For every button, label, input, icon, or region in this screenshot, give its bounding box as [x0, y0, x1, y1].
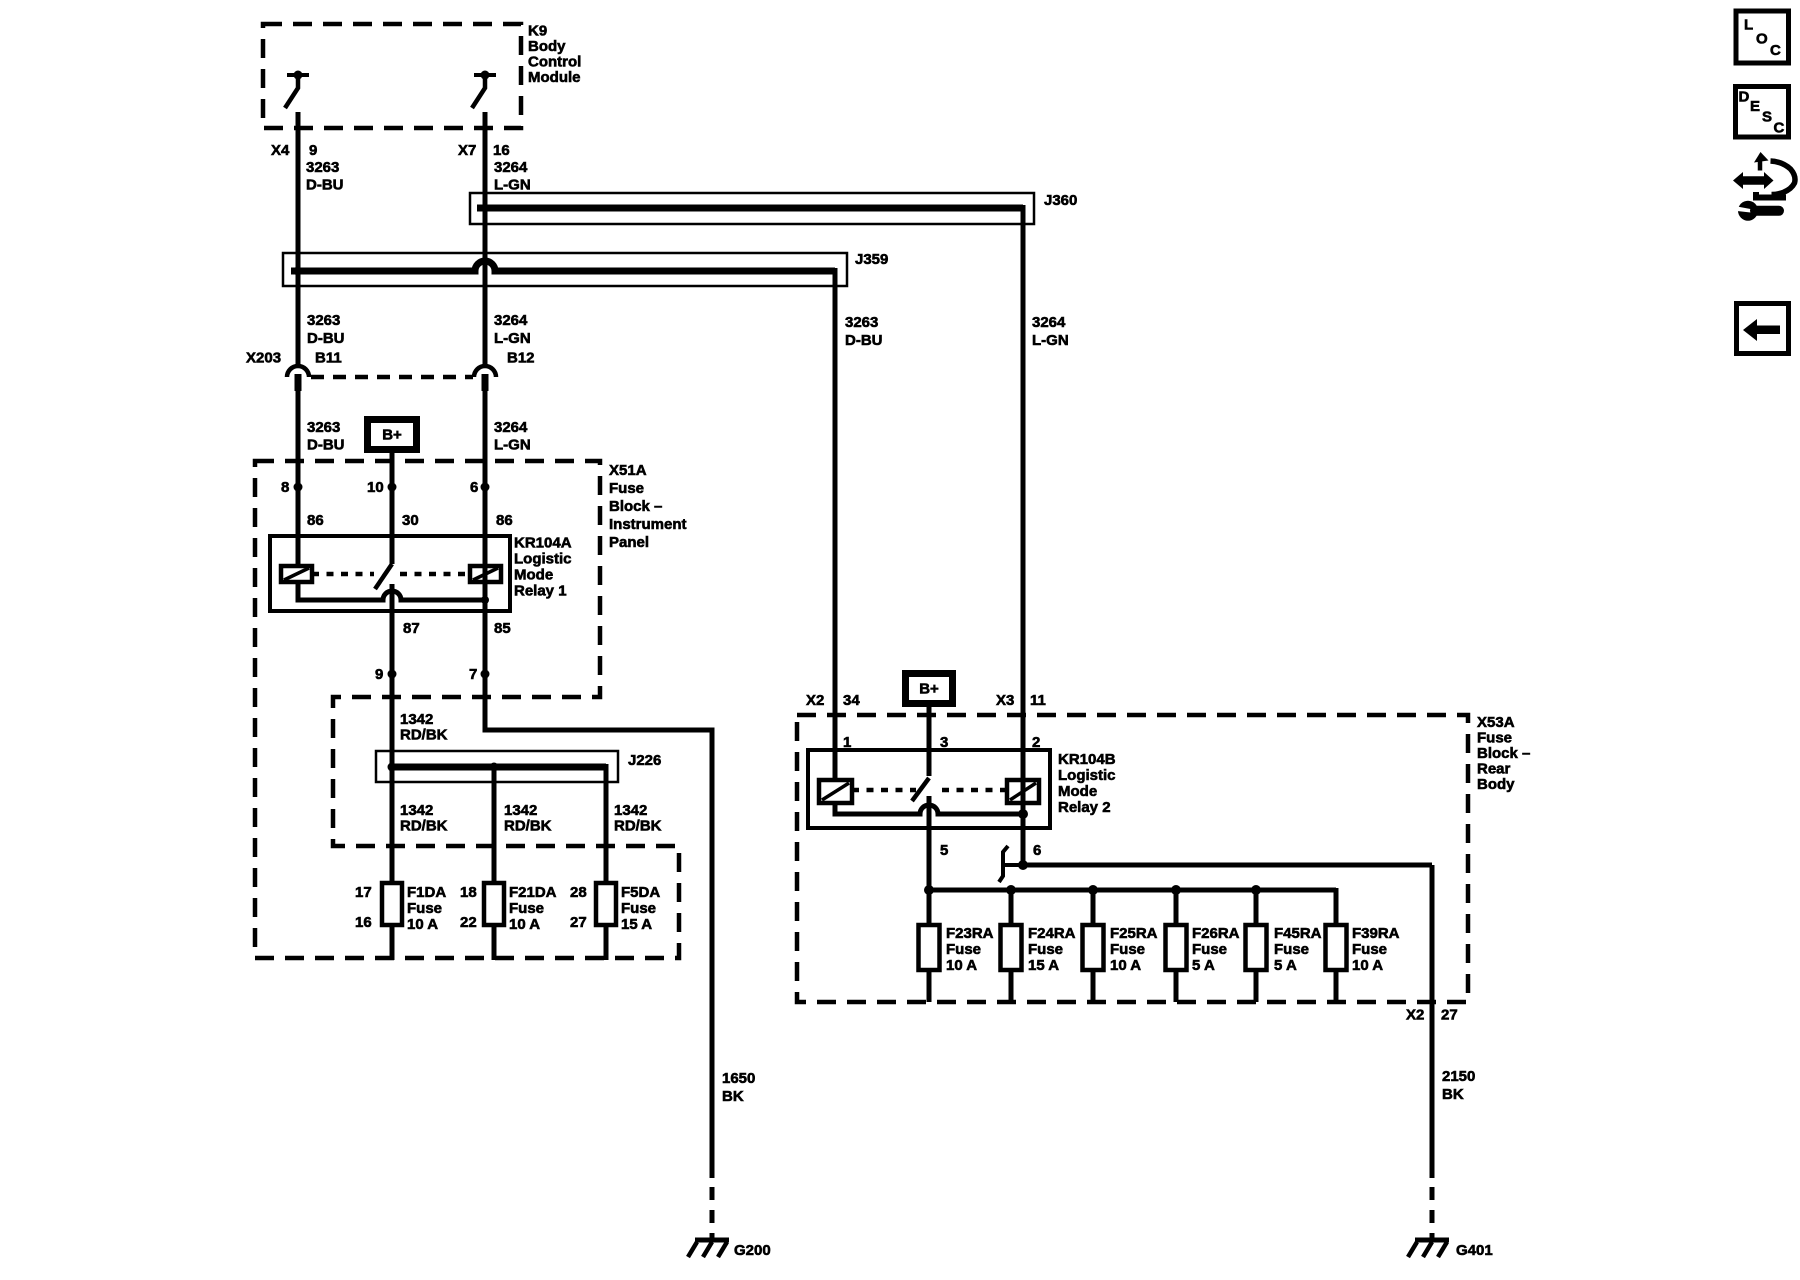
- svg-text:Fuse: Fuse: [946, 941, 981, 958]
- svg-text:10 A: 10 A: [946, 957, 977, 974]
- svg-text:C: C: [1770, 42, 1781, 59]
- svg-text:Block –: Block –: [1477, 745, 1530, 762]
- svg-text:Fuse: Fuse: [1352, 941, 1387, 958]
- svg-text:3263: 3263: [307, 312, 340, 329]
- svg-text:15 A: 15 A: [621, 916, 652, 933]
- svg-text:Control: Control: [528, 54, 581, 71]
- svg-text:X51A: X51A: [609, 462, 647, 479]
- svg-text:30: 30: [402, 512, 419, 529]
- svg-text:8: 8: [281, 479, 289, 496]
- svg-text:Logistic: Logistic: [514, 551, 572, 568]
- svg-text:10 A: 10 A: [407, 916, 438, 933]
- svg-text:F24RA: F24RA: [1028, 925, 1076, 942]
- svg-text:3: 3: [940, 734, 948, 751]
- svg-text:3263: 3263: [307, 419, 340, 436]
- svg-text:Relay 2: Relay 2: [1058, 799, 1111, 816]
- svg-text:B12: B12: [507, 350, 535, 367]
- svg-text:X2: X2: [1406, 1007, 1424, 1024]
- svg-text:F45RA: F45RA: [1274, 925, 1322, 942]
- svg-text:Fuse: Fuse: [1028, 941, 1063, 958]
- svg-text:J360: J360: [1044, 192, 1077, 209]
- svg-text:L-GN: L-GN: [494, 177, 531, 194]
- svg-text:7: 7: [469, 666, 477, 683]
- svg-text:RD/BK: RD/BK: [400, 727, 448, 744]
- svg-text:F1DA: F1DA: [407, 884, 446, 901]
- svg-text:28: 28: [570, 884, 587, 901]
- svg-text:3264: 3264: [494, 159, 528, 176]
- svg-text:X53A: X53A: [1477, 714, 1515, 731]
- svg-text:B11: B11: [315, 350, 342, 367]
- svg-text:B+: B+: [382, 427, 402, 444]
- svg-text:Block –: Block –: [609, 498, 662, 515]
- svg-text:10: 10: [367, 479, 384, 496]
- svg-text:Fuse: Fuse: [1274, 941, 1309, 958]
- svg-text:1650: 1650: [722, 1070, 755, 1087]
- svg-text:KR104A: KR104A: [514, 535, 572, 552]
- svg-text:Fuse: Fuse: [509, 900, 544, 917]
- svg-text:F21DA: F21DA: [509, 884, 557, 901]
- svg-text:Mode: Mode: [514, 567, 553, 584]
- svg-text:BK: BK: [1442, 1086, 1464, 1103]
- svg-text:Instrument: Instrument: [609, 516, 687, 533]
- svg-text:Rear: Rear: [1477, 761, 1511, 778]
- svg-text:F5DA: F5DA: [621, 884, 660, 901]
- svg-text:L-GN: L-GN: [1032, 332, 1069, 349]
- svg-text:C: C: [1774, 120, 1785, 137]
- svg-text:K9: K9: [528, 23, 547, 40]
- svg-text:L-GN: L-GN: [494, 437, 531, 454]
- svg-text:16: 16: [355, 914, 372, 931]
- svg-text:X203: X203: [246, 350, 281, 367]
- svg-text:3263: 3263: [845, 314, 878, 331]
- svg-text:1342: 1342: [614, 802, 647, 819]
- svg-text:Fuse: Fuse: [1477, 730, 1512, 747]
- svg-text:3263: 3263: [306, 159, 339, 176]
- svg-text:S: S: [1762, 108, 1772, 125]
- svg-text:RD/BK: RD/BK: [614, 818, 662, 835]
- svg-text:RD/BK: RD/BK: [400, 818, 448, 835]
- svg-text:Body: Body: [528, 38, 566, 55]
- svg-text:86: 86: [307, 512, 324, 529]
- svg-text:10 A: 10 A: [1110, 957, 1141, 974]
- svg-text:17: 17: [355, 884, 372, 901]
- svg-text:X7: X7: [458, 142, 476, 159]
- svg-text:1342: 1342: [400, 711, 433, 728]
- svg-text:5 A: 5 A: [1274, 957, 1297, 974]
- svg-text:18: 18: [460, 884, 477, 901]
- svg-text:Panel: Panel: [609, 534, 649, 551]
- svg-text:9: 9: [309, 142, 317, 159]
- svg-text:2150: 2150: [1442, 1068, 1475, 1085]
- svg-text:O: O: [1756, 31, 1768, 48]
- svg-text:3264: 3264: [1032, 314, 1066, 331]
- svg-text:16: 16: [493, 142, 510, 159]
- svg-text:3264: 3264: [494, 419, 528, 436]
- svg-text:BK: BK: [722, 1088, 744, 1105]
- svg-text:D-BU: D-BU: [845, 332, 883, 349]
- svg-text:10 A: 10 A: [509, 916, 540, 933]
- svg-text:D-BU: D-BU: [307, 437, 345, 454]
- svg-text:85: 85: [494, 620, 511, 637]
- svg-text:KR104B: KR104B: [1058, 751, 1116, 768]
- svg-text:B+: B+: [919, 680, 939, 697]
- svg-text:5: 5: [940, 842, 948, 859]
- svg-text:D-BU: D-BU: [306, 177, 344, 194]
- svg-text:G401: G401: [1456, 1242, 1493, 1259]
- svg-text:RD/BK: RD/BK: [504, 818, 552, 835]
- svg-text:Fuse: Fuse: [621, 900, 656, 917]
- svg-text:Fuse: Fuse: [1110, 941, 1145, 958]
- svg-text:J226: J226: [628, 752, 661, 769]
- svg-text:D: D: [1739, 89, 1750, 106]
- svg-text:5 A: 5 A: [1192, 957, 1215, 974]
- svg-text:6: 6: [470, 479, 478, 496]
- svg-text:X2: X2: [806, 692, 824, 709]
- svg-text:F23RA: F23RA: [946, 925, 994, 942]
- svg-text:2: 2: [1032, 734, 1040, 751]
- svg-text:F26RA: F26RA: [1192, 925, 1240, 942]
- svg-text:22: 22: [460, 914, 477, 931]
- svg-text:F25RA: F25RA: [1110, 925, 1158, 942]
- svg-text:Module: Module: [528, 69, 581, 86]
- svg-text:1: 1: [843, 734, 851, 751]
- svg-text:11: 11: [1030, 692, 1046, 709]
- svg-text:X3: X3: [996, 692, 1014, 709]
- svg-text:X4: X4: [271, 142, 290, 159]
- svg-text:3264: 3264: [494, 312, 528, 329]
- svg-text:1342: 1342: [504, 802, 537, 819]
- svg-text:Fuse: Fuse: [1192, 941, 1227, 958]
- svg-text:27: 27: [1441, 1007, 1458, 1024]
- svg-text:86: 86: [496, 512, 513, 529]
- svg-text:1342: 1342: [400, 802, 433, 819]
- svg-text:F39RA: F39RA: [1352, 925, 1400, 942]
- svg-text:87: 87: [403, 620, 420, 637]
- svg-text:J359: J359: [855, 251, 888, 268]
- svg-text:Mode: Mode: [1058, 783, 1097, 800]
- svg-text:34: 34: [843, 692, 860, 709]
- svg-text:L: L: [1744, 17, 1753, 34]
- svg-text:L-GN: L-GN: [494, 330, 531, 347]
- svg-text:9: 9: [375, 666, 383, 683]
- svg-text:10 A: 10 A: [1352, 957, 1383, 974]
- svg-text:15 A: 15 A: [1028, 957, 1059, 974]
- svg-text:D-BU: D-BU: [307, 330, 345, 347]
- svg-text:Logistic: Logistic: [1058, 767, 1116, 784]
- svg-text:Body: Body: [1477, 776, 1515, 793]
- svg-text:Fuse: Fuse: [407, 900, 442, 917]
- svg-text:Fuse: Fuse: [609, 480, 644, 497]
- svg-text:27: 27: [570, 914, 587, 931]
- svg-text:6: 6: [1033, 842, 1041, 859]
- svg-text:G200: G200: [734, 1242, 771, 1259]
- svg-text:Relay 1: Relay 1: [514, 583, 567, 600]
- svg-text:E: E: [1750, 98, 1760, 115]
